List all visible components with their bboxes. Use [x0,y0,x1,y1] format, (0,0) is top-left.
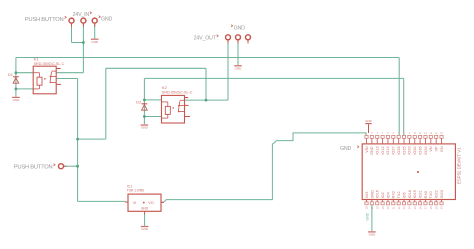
svg-text:VP: VP [434,146,438,152]
svg-text:TSR 1-2450: TSR 1-2450 [127,188,144,192]
svg-text:RX0: RX0 [424,191,428,198]
svg-text:17: 17 [370,206,374,209]
svg-text:IO34: IO34 [424,146,428,154]
svg-text:26: 26 [418,206,422,209]
svg-text:GND: GND [235,66,243,70]
svg-text:21: 21 [392,206,396,209]
svg-text:GND: GND [365,212,369,220]
svg-text:23: 23 [402,206,406,209]
svg-text:GND: GND [370,146,374,155]
svg-text:GND: GND [365,119,373,123]
svg-text:IO5: IO5 [402,192,406,198]
svg-text:GND: GND [101,16,113,22]
svg-text:28: 28 [429,206,433,209]
svg-text:IO26: IO26 [397,146,401,154]
svg-text:PUSH BUTTON: PUSH BUTTON [25,17,64,23]
svg-text:VIN: VIN [365,146,369,153]
svg-text:VI: VI [133,201,137,205]
svg-text:24V_IN: 24V_IN [73,12,90,18]
svg-text:SRD-05VDC-SL-C: SRD-05VDC-SL-C [34,62,65,66]
svg-text:IO15: IO15 [376,190,380,198]
svg-text:IO35: IO35 [418,146,422,154]
svg-text:IO32: IO32 [413,146,417,154]
svg-text:GND: GND [340,146,352,152]
svg-text:GND: GND [370,190,374,199]
svg-text:IO25: IO25 [402,146,406,154]
svg-text:SRD-05VDC-SL-C: SRD-05VDC-SL-C [162,91,193,95]
svg-text:24V_OUT: 24V_OUT [194,35,217,41]
svg-text:19: 19 [381,206,385,209]
svg-text:RX2: RX2 [392,191,396,198]
svg-text:29: 29 [434,206,438,209]
svg-text:IO33: IO33 [408,146,412,154]
svg-text:27: 27 [424,206,428,209]
svg-text:ESP32 DEVKIT V1: ESP32 DEVKIT V1 [456,147,461,184]
svg-text:IO4: IO4 [386,192,390,198]
svg-text:IO14: IO14 [386,146,390,154]
svg-text:TX2: TX2 [397,191,401,198]
svg-text:D2: D2 [136,99,142,104]
svg-text:IO18: IO18 [408,190,412,198]
svg-text:IO13: IO13 [376,146,380,154]
svg-text:K1: K1 [34,57,40,62]
svg-text:IO12: IO12 [381,146,385,154]
svg-text:20: 20 [386,206,390,209]
svg-text:TX0: TX0 [429,191,433,198]
svg-text:GND: GND [234,25,246,31]
svg-text:IO22: IO22 [435,190,439,198]
svg-text:EN: EN [440,146,444,152]
svg-text:IO19: IO19 [413,190,417,198]
svg-text:K2: K2 [162,85,168,90]
svg-text:GND: GND [91,40,99,44]
svg-text:18: 18 [375,206,379,209]
svg-text:25: 25 [413,206,417,209]
svg-text:3V3: 3V3 [365,192,369,199]
svg-text:GND: GND [141,206,149,210]
svg-text:16: 16 [365,206,369,209]
svg-text:GND: GND [13,98,21,102]
svg-text:IO23: IO23 [440,190,444,198]
svg-text:VN: VN [429,146,433,152]
svg-text:IO2: IO2 [381,192,385,198]
svg-text:IO27: IO27 [392,146,396,154]
svg-text:GND: GND [369,233,377,237]
svg-text:IO21: IO21 [419,190,423,198]
svg-text:D1: D1 [8,72,14,77]
svg-text:GND: GND [141,126,149,130]
svg-text:24: 24 [408,206,412,209]
svg-text:PUSH BUTTON: PUSH BUTTON [14,164,53,170]
svg-text:30: 30 [440,206,444,209]
svg-text:22: 22 [397,206,401,209]
svg-text:GND: GND [141,227,149,231]
svg-text:VO: VO [148,201,154,205]
